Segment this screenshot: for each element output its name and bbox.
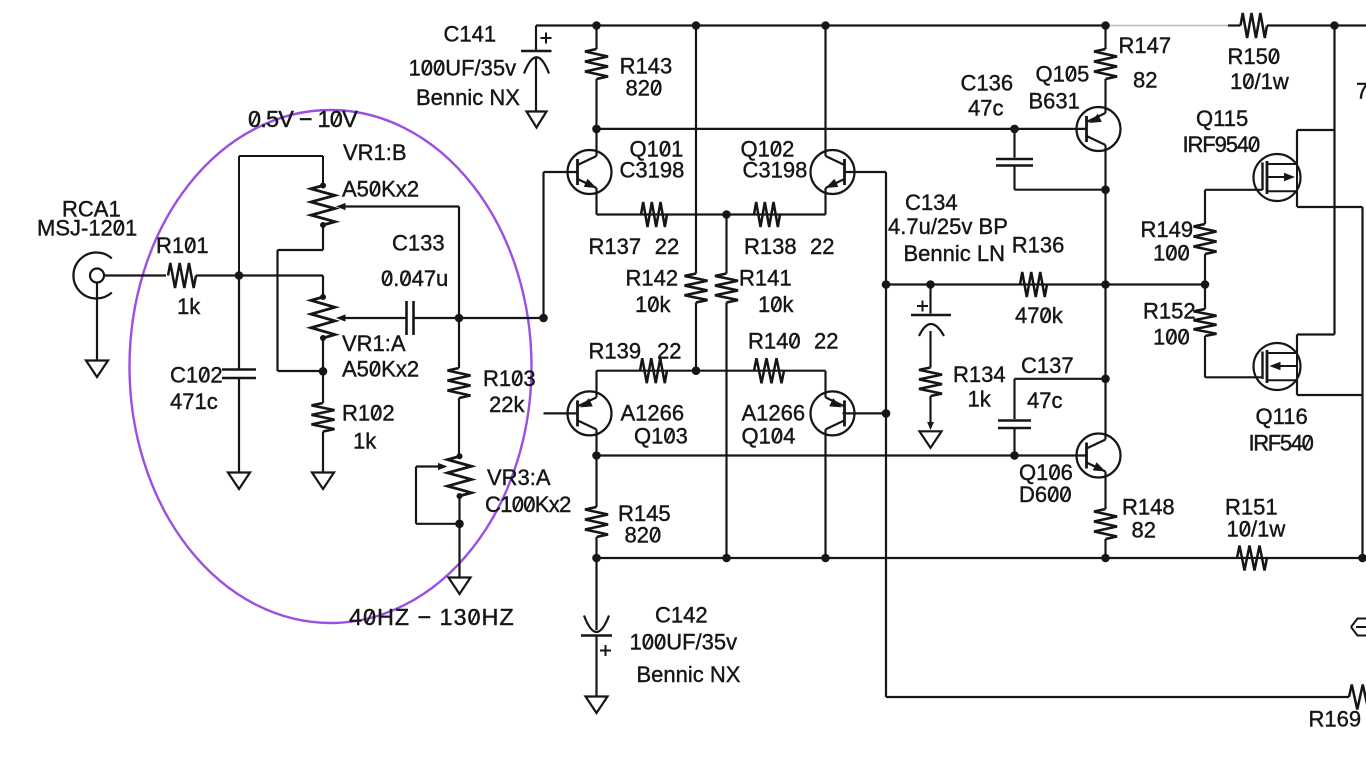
svg-text:R137: R137 (589, 234, 642, 259)
svg-text:Bennic NX: Bennic NX (637, 662, 741, 687)
svg-text:R102: R102 (342, 401, 395, 426)
svg-text:1k: 1k (353, 429, 377, 454)
svg-text:B631: B631 (1029, 89, 1080, 114)
svg-text:10/1w: 10/1w (1227, 517, 1286, 542)
svg-text:470k: 470k (1015, 303, 1064, 328)
svg-text:R101: R101 (156, 233, 209, 258)
svg-text:C136: C136 (961, 71, 1014, 96)
svg-text:C142: C142 (655, 603, 708, 628)
svg-text:10/1w: 10/1w (1230, 69, 1289, 94)
svg-text:100UF/35v: 100UF/35v (630, 630, 738, 655)
svg-text:C102: C102 (170, 363, 223, 388)
svg-text:Q104: Q104 (742, 424, 796, 449)
svg-text:Bennic NX: Bennic NX (416, 85, 520, 110)
svg-text:22: 22 (655, 234, 679, 259)
svg-text:C3198: C3198 (620, 158, 685, 183)
svg-text:D600: D600 (1019, 482, 1072, 507)
svg-text:VR1:A: VR1:A (342, 331, 406, 356)
svg-text:R150: R150 (1228, 44, 1281, 69)
svg-text:471c: 471c (170, 389, 218, 414)
svg-text:R136: R136 (1012, 233, 1065, 258)
svg-text:7: 7 (1356, 79, 1366, 104)
svg-text:VR3:A: VR3:A (487, 465, 551, 490)
svg-text:100UF/35v: 100UF/35v (409, 56, 517, 81)
svg-text:A50Kx2: A50Kx2 (342, 177, 419, 202)
svg-text:R141: R141 (739, 266, 792, 291)
svg-text:C3198: C3198 (743, 158, 808, 183)
svg-text:R148: R148 (1122, 495, 1175, 520)
svg-text:A50Kx2: A50Kx2 (342, 357, 419, 382)
svg-text:Bennic LN: Bennic LN (904, 241, 1006, 266)
svg-text:22: 22 (814, 329, 838, 354)
svg-text:IRF9540: IRF9540 (1183, 132, 1261, 157)
svg-text:C137: C137 (1021, 353, 1074, 378)
svg-text:R152: R152 (1143, 299, 1196, 324)
svg-text:47c: 47c (968, 96, 1003, 121)
svg-text:R142: R142 (626, 266, 679, 291)
svg-text:A1266: A1266 (621, 401, 685, 426)
svg-text:IRF540: IRF540 (1249, 431, 1314, 456)
svg-text:A1266: A1266 (742, 401, 806, 426)
svg-text:VR1:B: VR1:B (343, 140, 407, 165)
svg-text:R103: R103 (483, 366, 536, 391)
svg-text:47c: 47c (1027, 388, 1062, 413)
svg-text:Q116: Q116 (1256, 404, 1308, 429)
svg-text:4.7u/25v BP: 4.7u/25v BP (888, 214, 1008, 239)
svg-text:0.047u: 0.047u (381, 266, 448, 291)
svg-text:MSJ-1201: MSJ-1201 (37, 216, 137, 241)
svg-text:R134: R134 (953, 362, 1006, 387)
svg-text:22k: 22k (489, 392, 525, 417)
svg-text:22: 22 (657, 339, 681, 364)
svg-text:R138: R138 (744, 234, 797, 259)
svg-text:82: 82 (1133, 68, 1157, 93)
svg-text:R143: R143 (620, 53, 673, 78)
svg-text:Q103: Q103 (634, 424, 688, 449)
svg-text:R149: R149 (1141, 217, 1194, 242)
svg-text:40HZ − 130HZ: 40HZ − 130HZ (349, 604, 515, 630)
svg-text:C134: C134 (905, 190, 958, 215)
svg-text:1k: 1k (177, 294, 201, 319)
svg-text:0.5V − 10V: 0.5V − 10V (248, 106, 358, 132)
svg-text:Q105: Q105 (1036, 62, 1090, 87)
svg-text:C133: C133 (392, 231, 445, 256)
svg-text:R147: R147 (1119, 33, 1172, 58)
svg-text:R140: R140 (748, 329, 801, 354)
svg-text:R139: R139 (589, 339, 642, 364)
svg-text:22: 22 (810, 234, 834, 259)
svg-text:C141: C141 (444, 22, 497, 47)
svg-text:Q115: Q115 (1196, 106, 1248, 131)
svg-text:R169: R169 (1309, 707, 1362, 732)
svg-text:C100Kx2: C100Kx2 (485, 492, 571, 517)
svg-text:82: 82 (1132, 518, 1156, 543)
svg-text:1k: 1k (968, 387, 992, 412)
